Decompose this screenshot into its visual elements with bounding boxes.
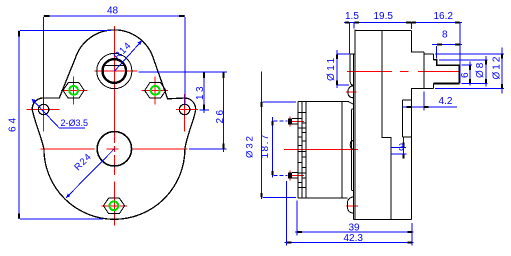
svg-text:Ø11: Ø11 — [326, 55, 337, 81]
svg-text:64: 64 — [8, 115, 19, 132]
svg-text:26: 26 — [215, 107, 226, 123]
svg-text:48: 48 — [107, 6, 119, 17]
svg-text:18.7: 18.7 — [260, 133, 271, 158]
svg-text:39: 39 — [349, 223, 361, 234]
svg-text:3: 3 — [399, 143, 405, 154]
svg-text:1.5: 1.5 — [345, 11, 359, 22]
svg-text:Ø8: Ø8 — [475, 61, 486, 78]
svg-text:4.2: 4.2 — [439, 96, 453, 107]
svg-text:Ø32: Ø32 — [245, 134, 256, 158]
svg-text:42.3: 42.3 — [344, 233, 364, 244]
svg-text:6: 6 — [460, 72, 471, 78]
svg-text:13: 13 — [195, 84, 206, 100]
svg-text:19.5: 19.5 — [374, 11, 394, 22]
svg-text:2-Ø3.5: 2-Ø3.5 — [61, 118, 89, 128]
svg-text:Ø12: Ø12 — [492, 55, 503, 80]
svg-text:16.2: 16.2 — [434, 11, 454, 22]
svg-text:8: 8 — [442, 30, 448, 41]
